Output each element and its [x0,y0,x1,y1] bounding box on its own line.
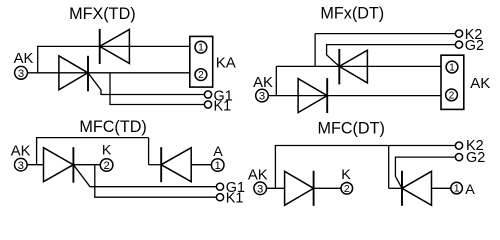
svg-text:3: 3 [259,91,265,103]
svg-text:2: 2 [449,90,455,101]
pin 1 [446,61,458,73]
terminal G2 [455,154,462,161]
terminal 3 (AK) [254,182,267,195]
svg-text:G2: G2 [466,150,485,166]
terminal block AK [441,55,464,109]
svg-text:2: 2 [198,70,204,81]
gate wire to G2 [395,157,455,188]
svg-text:1: 1 [215,160,221,172]
wire cathode horizontal [314,187,341,189]
thyristor Q2 [339,49,367,85]
svg-text:1: 1 [449,63,455,74]
terminal G1 [216,183,223,190]
svg-text:AK: AK [253,75,273,91]
gate wire to G1 [88,73,204,95]
terminal 1 (A) [211,159,224,172]
terminal 3 (AK) [256,89,269,102]
svg-text:3: 3 [18,160,24,172]
terminal G1 [204,91,211,98]
wire anode horizontal [267,187,285,189]
terminal K1 [216,194,223,201]
svg-text:2: 2 [103,160,109,172]
wire thyristor row [276,65,441,67]
svg-text:G2: G2 [465,38,484,54]
wire branch vertical [36,138,38,165]
diode D4 [285,171,314,206]
wire cathode to K1 [110,73,204,105]
terminal 3 (AK) [15,66,28,80]
wire main horizontal [27,72,190,74]
terminal 1 (A) [451,182,463,194]
diode D3 [161,147,191,182]
wire anode to A [191,164,211,166]
svg-text:MFC(TD): MFC(TD) [79,118,146,136]
wire drop vertical [148,138,150,165]
pin 1 [195,41,207,53]
terminal block KA [190,36,213,87]
thyristor Q4 [402,171,432,206]
gate wire to G1 [73,165,216,187]
svg-text:AK: AK [248,167,268,183]
wire top horizontal to K2 [275,145,456,147]
wire anode to A [432,187,451,189]
svg-text:K1: K1 [214,99,232,115]
wire drop vertical [388,146,390,189]
svg-text:K1: K1 [226,191,244,207]
gate wire to G2 [327,45,456,67]
svg-text:MFx(DT): MFx(DT) [320,5,384,23]
terminal K2 [455,30,462,37]
wire top horizontal [36,137,149,139]
wire branch vertical [275,66,277,95]
svg-text:AK: AK [14,51,34,67]
wire to diode [149,164,162,166]
svg-text:A: A [465,182,475,198]
thyristor Q1 [59,56,88,92]
wire main horizontal [268,95,441,97]
terminal 3 (AK) [14,158,27,171]
svg-text:MFC(DT): MFC(DT) [317,119,384,137]
terminal 2 (K) [341,183,353,195]
svg-text:K: K [102,143,112,159]
svg-text:1: 1 [454,184,460,195]
terminal K1 [204,101,211,108]
wire to thyristor [389,187,402,189]
thyristor Q3 [44,147,74,183]
wire cathode to K1 [95,165,217,198]
terminal K2 [455,142,462,149]
diode D1 [100,29,130,64]
wire top horizontal [37,45,190,47]
wire cathode vertical to K2 [314,34,316,67]
svg-text:2: 2 [344,184,350,195]
svg-text:AK: AK [470,75,490,92]
svg-text:MFX(TD): MFX(TD) [69,5,136,23]
wire branch vertical [274,146,276,189]
svg-text:K: K [341,167,351,183]
diode D2 [298,78,327,113]
pin 2 [446,89,458,101]
wire anode horizontal [27,164,43,166]
terminal G2 [455,41,462,48]
svg-text:3: 3 [18,68,24,80]
pin 2 [195,69,207,81]
svg-text:KA: KA [216,54,236,71]
svg-text:A: A [213,144,223,160]
svg-text:1: 1 [198,43,204,54]
wire branch vertical [37,46,39,72]
svg-text:3: 3 [257,183,263,195]
svg-text:AK: AK [11,144,31,160]
terminal 2 (K) [100,159,113,172]
wire K2 horizontal [315,33,456,35]
wire cathode horizontal [73,164,100,166]
